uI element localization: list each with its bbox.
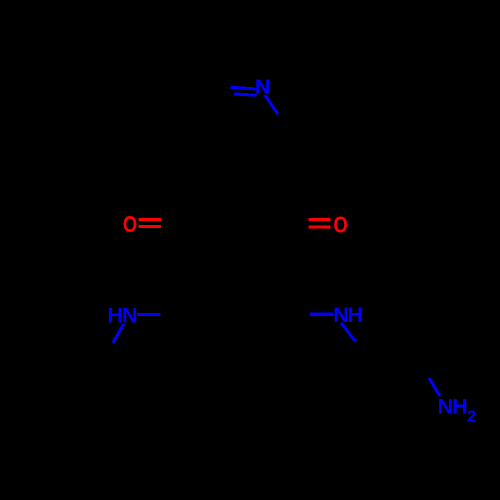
bond CH2-N4 (into terminal amine) [429, 378, 440, 396]
bond N2-CH2 (down-left) [113, 324, 124, 343]
bond C(ring)-N3 [310, 313, 334, 316]
bond C2=N1 double bond lower line [234, 94, 257, 95]
bond C=O2 double bond upper line [308, 218, 330, 221]
svg-text:NH: NH [438, 394, 468, 418]
svg-text:NH: NH [333, 303, 362, 327]
svg-text:O: O [123, 212, 137, 237]
bond N2-C(ring) [137, 313, 160, 316]
bond N3-CH2 (down-right) [341, 323, 355, 342]
bond C2=N1 double bond upper line [231, 87, 256, 89]
bond O1=C double bond lower line [138, 225, 161, 228]
bond C=O2 double bond lower line [308, 226, 330, 229]
svg-text:2: 2 [467, 408, 476, 425]
svg-text:N: N [255, 75, 271, 99]
bond O1=C double bond upper line [138, 218, 161, 221]
svg-text:O: O [333, 213, 347, 238]
bond N1-C6 single [265, 95, 278, 114]
